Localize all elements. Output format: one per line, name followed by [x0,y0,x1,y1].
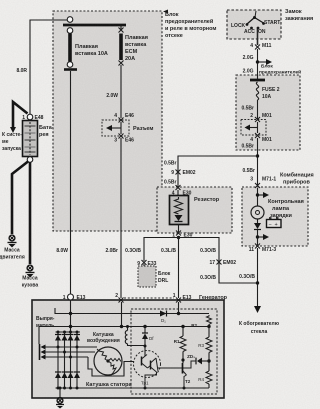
bridge column 4 [74,332,80,388]
wire fusible link 10A down to generator B+ (8.0W) [70,71,72,294]
generator ground [56,387,64,409]
resistor R (box) [170,190,220,225]
ground engine [0,235,25,260]
wire E13-2 into generator [121,302,123,327]
connector M01 pin 4 [255,133,260,138]
transistor T2 [183,363,191,388]
T1 emitter to ground rail [145,372,157,388]
wire branch to EM02 pin 9 [178,156,258,188]
wire M11 to fuse box (2.0G) [257,49,259,80]
instrument panel fuse box [236,75,300,150]
T1 output to T2 base [158,367,182,369]
bridge column 1 [55,332,61,388]
diode in cluster [257,219,259,223]
node arrow out (bottom) [256,235,259,238]
node branch to resistor line [256,154,259,157]
connector E13 dashed link [124,297,174,299]
rail field supply [39,326,209,328]
zener diode ZD [183,354,211,368]
instrument cluster box [242,187,308,246]
wire E46 to generator pin 2 (2.0Br) [120,138,122,298]
fusible link bus bar [63,24,126,27]
fuse 2 10A [250,80,280,100]
label engine fuse box [163,10,168,14]
connector M71-1 pin 3 [255,183,260,188]
connector E30 pin 4 [176,185,181,190]
diode D1 [160,311,167,324]
bridge bottom bus / ground rail [56,387,210,389]
connector M01 pin 2 [255,117,260,122]
transistor T1 (darlington) [134,351,161,386]
node E30 output junction [177,236,180,239]
battery charge icon [267,218,282,228]
fusible link 10A terminals and element [64,17,108,70]
connector E46 pin 3 [119,134,124,139]
wire to EM02 pin 17 (0.3O/B) [179,238,258,284]
rail B+ inside generator [55,308,209,314]
connector E13 pin 3 [176,298,181,303]
battery B1 [23,121,38,157]
bridge column 3 [68,331,74,389]
connector M11 pin 4 [255,45,260,50]
connector E30 pin 1 [178,225,180,233]
freewheel diode Df [142,327,154,352]
connector E13 pin 2 [119,298,124,303]
field coil (rotor) [87,325,145,346]
wire inside cluster [257,188,259,206]
wire E13-1 into generator [70,300,72,332]
connector M71-3 pin 11 [255,244,260,249]
wire battery negative to engine ground (thick) [12,162,28,235]
wire to generator pin 3 (0.3L/B) [178,238,180,299]
wire battery negative to body ground (thick) [29,163,32,265]
diode trio (exciter diodes) [39,327,97,361]
wire battery to fusible link (8.0R) [30,20,67,114]
node junction with EM02-17 wire [256,281,259,284]
wire E13-3 into regulator [178,302,180,314]
connector EM02 pin 17 [217,260,222,265]
wire ECM link to connector E46 (2.0W) [120,65,122,118]
node arrow in (top) [256,193,259,196]
connector E46 pin 4 [119,118,124,123]
ignition switch SW1 internals [231,11,280,35]
resistor R2 [191,315,211,328]
resistor box [157,187,232,233]
wire to starting system (thick) [13,102,28,128]
ignition switch box [227,10,281,39]
phase wrap wire to regulator (under stator) [88,357,134,376]
charge warning lamp L1 [251,206,264,219]
connector E13 pin 1 (B+) [68,294,74,300]
arrow to glass heater [254,306,261,313]
fusible link ECM 20A [119,25,148,66]
bridge column 2 [62,332,68,388]
node branch to fuse block (arrow) [256,60,259,63]
connector joint dashed box (Razyem) [102,120,129,136]
resistor R1 [174,327,186,364]
generator box [32,300,224,398]
wire fuse to M01 (0.5Br) [257,100,259,119]
wire M71-3 down (0.3O/B) to glass heater [257,248,259,306]
connector E33 pin 9 [142,260,147,265]
ground body [22,265,39,288]
DRL unit box [138,266,156,287]
stator coil [86,347,132,388]
rectifier bridge top bus [56,331,81,333]
wire ignition ON output [257,29,259,45]
node E48 pin 1 (battery +) [27,114,33,120]
wire M01 to cluster (0.5Br) [257,138,259,186]
wire to E33 / DRL (0.3O/B) [144,238,179,262]
voltage regulator dashed box U1 [131,309,217,394]
joint dashed box M01 [241,120,266,136]
regulator right column with R3 [198,327,212,372]
connector EM02 pin 9 [176,170,181,175]
battery negative terminal node [27,157,33,163]
engine compartment fuse/relay box (shaded dashed) [53,11,162,231]
resistor R4 [198,371,212,388]
